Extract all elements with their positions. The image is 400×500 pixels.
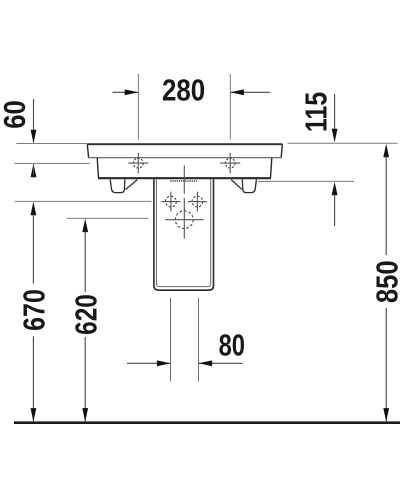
dim 80 extension right [198, 298, 200, 382]
svg-text:850: 850 [371, 260, 400, 303]
dim 280 extension left [137, 74, 139, 140]
right bracket [231, 180, 256, 193]
dim 80 line left + arrow [127, 360, 170, 366]
dim 670 reference line [15, 200, 151, 202]
drain hole circle [165, 211, 203, 229]
svg-text:80: 80 [219, 328, 245, 363]
left bracket [110, 180, 137, 193]
svg-text:115: 115 [299, 92, 333, 132]
dim 280 line right + arrow [230, 89, 270, 95]
dim 80 extension left [170, 298, 172, 382]
dim 115 top reference line [288, 142, 398, 144]
right fixing hole cross [220, 153, 240, 174]
floor line [14, 421, 400, 424]
hidden drain outline (dotted) [170, 180, 197, 182]
svg-text:620: 620 [69, 294, 103, 335]
left fixing hole cross [128, 153, 148, 174]
dim 620 line + arrows [82, 219, 88, 422]
center axis line [183, 166, 185, 239]
pedestal outer [154, 179, 214, 290]
basin top plate [87, 144, 282, 158]
dim 60 line + arrows [31, 99, 37, 178]
dim 670 line + arrows [31, 202, 37, 422]
pedestal left hole [161, 192, 180, 212]
dim 280 extension right [229, 74, 231, 140]
svg-text:670: 670 [17, 289, 51, 331]
dim 280 line left + arrow [113, 89, 139, 95]
pedestal inner [156, 179, 210, 286]
basin body [97, 158, 272, 179]
dim 850 line + arrows [383, 144, 389, 422]
dim 80 line right + arrow [199, 360, 243, 366]
svg-text:60: 60 [0, 100, 32, 128]
dim 620 reference line [67, 217, 149, 219]
dim 60 reference line top [17, 143, 89, 145]
dim 115 line + arrows [332, 94, 338, 226]
dim 115 bottom reference line [258, 180, 354, 182]
basin rim bottom line [88, 157, 281, 159]
dim 60 reference line bottom [15, 162, 90, 164]
pedestal right hole [188, 192, 207, 212]
svg-text:280: 280 [162, 72, 205, 106]
